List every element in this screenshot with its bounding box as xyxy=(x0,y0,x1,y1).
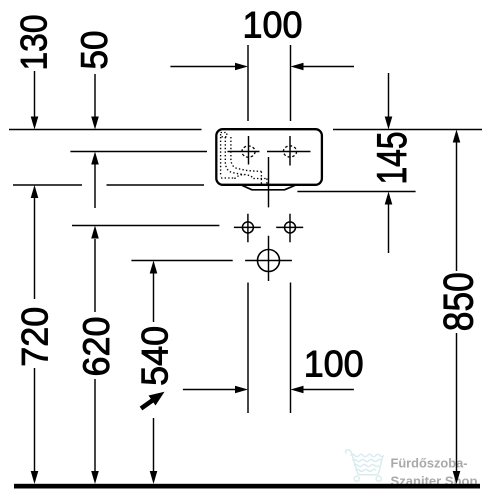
dimension 620 line xyxy=(94,239,96,471)
fixing hole left xyxy=(242,222,253,233)
wire 145 lower reference line xyxy=(297,191,415,193)
dimension 50 lower outside arrow xyxy=(94,164,96,208)
fixing hole right xyxy=(285,222,296,233)
tap hole right dashed circle xyxy=(283,146,296,157)
drain direction bold arrow xyxy=(141,392,165,409)
dimension 850 line xyxy=(456,142,458,471)
washbasin siphon cover xyxy=(242,185,295,189)
dimension 100 bottom extension lines xyxy=(248,283,291,414)
tap hole left crosshair xyxy=(228,136,260,165)
svg-text:130: 130 xyxy=(13,15,55,71)
wire rim reference line right xyxy=(333,129,482,131)
centerline vertical xyxy=(268,157,270,281)
dimension 145 line lower xyxy=(388,204,390,253)
dimension 720 line xyxy=(34,198,36,471)
wire 50 reference line xyxy=(70,151,207,153)
dimension 100 top right arrow xyxy=(303,66,354,68)
dimension 100 bottom left arrow xyxy=(183,389,236,391)
tap hole right crosshair xyxy=(267,136,311,166)
basin bowl dotted outline xyxy=(221,133,267,185)
svg-text:145: 145 xyxy=(368,132,415,185)
wire 720 reference line xyxy=(13,184,204,186)
dimension 540 line xyxy=(153,274,155,472)
wire 620 reference line xyxy=(72,225,219,227)
tap hole left dashed circle xyxy=(242,146,255,157)
drain hole circle xyxy=(258,250,280,272)
wire rim reference line left xyxy=(9,129,202,131)
dimension 130 line xyxy=(34,71,36,117)
wire 540 reference line xyxy=(131,260,232,262)
dimension 100 top left arrow xyxy=(170,66,235,68)
watermark cart icon xyxy=(346,450,385,482)
dimension 145 line upper xyxy=(388,73,390,117)
fixing hole right crosshair xyxy=(276,214,303,243)
floor line xyxy=(14,484,480,489)
svg-text:540: 540 xyxy=(133,326,175,386)
dimension 50 line xyxy=(94,74,96,117)
washbasin outline xyxy=(216,129,322,185)
drain hole crosshair xyxy=(245,260,292,262)
dimension 100 bottom right arrow xyxy=(304,389,354,391)
fixing hole left crosshair xyxy=(234,214,261,243)
svg-text:850: 850 xyxy=(435,272,482,331)
dimension 100 top extension lines xyxy=(248,45,291,121)
svg-text:720: 720 xyxy=(14,307,56,367)
svg-text:100: 100 xyxy=(243,4,303,46)
svg-text:620: 620 xyxy=(75,317,117,377)
svg-text:50: 50 xyxy=(73,31,115,70)
svg-text:100: 100 xyxy=(304,342,364,384)
watermark text xyxy=(391,456,478,489)
